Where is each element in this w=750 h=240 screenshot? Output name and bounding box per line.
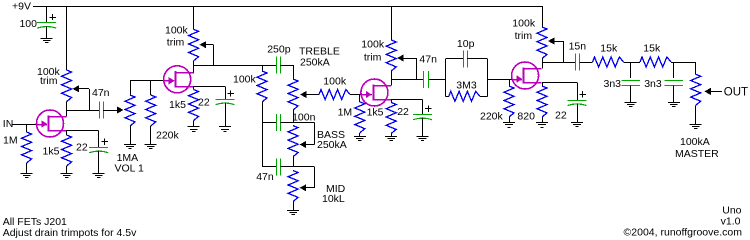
svg-text:100k: 100k (323, 76, 347, 88)
ground below R8 (385, 136, 397, 138)
wiper arrow VR3 (397, 54, 404, 61)
ground below R7 (354, 136, 366, 138)
wire RC top left (446, 58, 464, 60)
wire RC bottom right (480, 96, 488, 98)
wire Q3 source to R8 (391, 100, 393, 103)
resistor R6 100k (319, 90, 350, 100)
ground below R3 (145, 144, 157, 146)
wire C12 to ground (577, 103, 579, 122)
svg-text:15n: 15n (569, 40, 587, 52)
svg-text:10kL: 10kL (322, 193, 345, 205)
resistor R10 220k (509, 79, 511, 86)
resistor trimpot VR4 100k (537, 27, 547, 59)
potentiometer TREBLE 250kA (288, 79, 298, 110)
svg-text:1k5: 1k5 (169, 99, 186, 111)
wire drain node to slope resistor (262, 65, 264, 71)
ground below C2 (93, 173, 105, 175)
wire R12 to node (624, 62, 641, 64)
wire +9V rail (33, 6, 542, 8)
svg-text:22: 22 (555, 110, 567, 122)
svg-text:15k: 15k (643, 43, 661, 55)
wire RC network to Q4 gate (488, 79, 512, 81)
ground below C9 (417, 136, 429, 138)
svg-text:47n: 47n (92, 87, 110, 99)
ground below R1 (21, 173, 33, 175)
svg-text:22: 22 (198, 97, 210, 109)
svg-text:1k5: 1k5 (43, 146, 60, 158)
ground below R4 (188, 126, 200, 128)
arrow into VOL1 wiper (117, 106, 124, 113)
wire R13 to node (671, 62, 696, 64)
wiper arrow VR2 (200, 41, 207, 48)
svg-text:15k: 15k (600, 43, 618, 55)
svg-text:trim: trim (40, 75, 58, 87)
wire C6 to bass pot top (280, 122, 293, 124)
wire RC network left side (445, 59, 447, 97)
wire R6 to Q3 gate (350, 94, 372, 96)
potentiometer BASS 250kA (288, 126, 298, 157)
transistor Q2 J201 (164, 66, 191, 93)
wire Q4 source node (542, 82, 577, 84)
svg-text:3n3: 3n3 (604, 78, 622, 90)
wire Q2 source node (194, 86, 225, 88)
wire rail to trimpot VR1 (66, 6, 68, 70)
ground below C13 (625, 102, 637, 104)
svg-text:©2004, runoffgroove.com: ©2004, runoffgroove.com (624, 227, 743, 239)
wire treble pot bottom (293, 110, 295, 122)
node Q4 drain wire (542, 62, 575, 64)
wire VR1 wiper to drain node (89, 89, 91, 110)
svg-text:100k: 100k (165, 25, 189, 37)
resistor R13 15k (640, 57, 671, 67)
wire bass pot bottom (293, 157, 295, 167)
svg-text:3n3: 3n3 (644, 78, 662, 90)
wire Q2 source to R4 (193, 86, 195, 89)
node Q1 drain wire (67, 110, 100, 112)
wire rail corner to trimpot VR4 (542, 6, 544, 27)
resistor R3 220k (146, 95, 156, 126)
ground below R2 (61, 173, 73, 175)
wire to C12 (577, 83, 579, 101)
wire rail to trimpot VR3 (391, 6, 393, 40)
capacitor C9 22uF (413, 114, 432, 116)
svg-text:820: 820 (517, 111, 535, 123)
svg-text:trim: trim (364, 52, 382, 64)
wire mid pot bottom (293, 202, 295, 211)
capacitor C1 47n (99, 102, 101, 119)
svg-text:trim: trim (167, 37, 185, 49)
resistor R5 100k slope (257, 71, 267, 102)
wire bass top to wiper elbow (293, 122, 315, 124)
capacitor C2 22uF (89, 147, 108, 149)
wire C7 to mid pot top (280, 166, 293, 168)
capacitor C14 3n3 (665, 80, 684, 82)
wire C2 to ground (98, 151, 100, 174)
wire trimpot VR1 to Q1 drain (66, 102, 68, 117)
wire IN to Q1 gate (12, 124, 37, 126)
ground below VOL1 (124, 144, 136, 146)
wire C11 to R12 (580, 62, 593, 64)
ground below C12 (571, 122, 583, 124)
svg-text:1M: 1M (3, 135, 18, 147)
capacitor C12 22uF (568, 100, 587, 102)
wiper arrow TREBLE (300, 91, 307, 98)
ground below MID pot (287, 210, 299, 212)
svg-text:22: 22 (397, 106, 409, 118)
wire VOL1/220k top node to Q2 gate (130, 80, 164, 82)
capacitor C4 250p (276, 57, 278, 74)
wire VR4 wiper to drain node (563, 41, 565, 62)
capacitor C11 15n (575, 54, 577, 71)
wire RC network right side (487, 59, 489, 97)
wire to C2 (98, 131, 100, 148)
wire RC top right (467, 58, 487, 60)
resistor R4 1k5 (189, 90, 199, 121)
resistor trimpot VR3 100k (386, 40, 396, 71)
svg-text:47n: 47n (256, 171, 274, 183)
transistor Q1 J201 (37, 110, 64, 137)
wiper arrow VR1 (73, 85, 80, 92)
node Q2 drain wire (194, 65, 276, 67)
capacitor C7 47n (276, 158, 278, 175)
wire C13 to ground (630, 85, 632, 102)
ground below R11 (536, 122, 548, 124)
ground below C3 (219, 126, 231, 128)
wiper arrow MID (300, 184, 307, 191)
wire RC bottom left (446, 96, 449, 98)
wire node to C13 (630, 62, 632, 78)
wire VR3 wiper to drain node (416, 58, 418, 79)
ground below R10 (503, 122, 515, 124)
wire trimpot VR2 to Q2 drain (193, 61, 195, 73)
wire C9 to ground (422, 118, 424, 137)
svg-text:MASTER: MASTER (675, 148, 719, 160)
svg-text:250kA: 250kA (300, 57, 330, 69)
svg-text:250kA: 250kA (317, 139, 347, 151)
svg-text:250p: 250p (267, 44, 291, 56)
svg-text:+9V: +9V (12, 1, 31, 13)
wire VR2 wiper to drain node (213, 45, 215, 65)
wire C8 to RC network (429, 79, 446, 81)
wire C3 to ground (225, 102, 227, 127)
wire C5 to ground (46, 27, 48, 39)
svg-text:100k: 100k (361, 39, 385, 51)
wire C1 to VOL1 wiper arrow (103, 110, 117, 112)
wiper arrow VR4 (548, 37, 555, 44)
svg-text:220k: 220k (480, 111, 504, 123)
wiper arrow MASTER / OUT (704, 88, 711, 95)
svg-text:100k: 100k (233, 74, 257, 86)
wire backbone to C7 (262, 166, 276, 168)
ground below C14 (668, 102, 680, 104)
wire treble pot top (293, 65, 295, 79)
svg-text:100kA: 100kA (680, 136, 710, 148)
wire C4 to treble pot (280, 65, 293, 67)
svg-text:3M3: 3M3 (456, 79, 477, 91)
capacitor C5 100uF (37, 22, 56, 24)
wire Q3 source node (391, 99, 422, 101)
wire 220k top stub (150, 81, 152, 95)
svg-text:22: 22 (76, 142, 88, 154)
capacitor C8 47n (423, 71, 425, 88)
resistor R1 1M (26, 124, 28, 132)
svg-text:trim: trim (515, 30, 533, 42)
potentiometer MASTER 100kA (691, 74, 701, 105)
ground below C5 (41, 38, 53, 40)
wire trimpot VR4 to Q4 drain (542, 59, 544, 69)
svg-text:10p: 10p (457, 38, 475, 50)
capacitor C6 100n (276, 114, 278, 131)
wire Q4 source to R11 (542, 83, 544, 87)
wire to C9 (422, 100, 424, 115)
ground below MASTER (690, 124, 702, 126)
wire backbone to C6 (262, 122, 276, 124)
svg-text:47n: 47n (419, 54, 437, 66)
svg-text:VOL 1: VOL 1 (115, 163, 145, 175)
svg-text:1k5: 1k5 (367, 107, 384, 119)
wire node to C14 (673, 62, 675, 78)
resistor R9 3M3 (449, 91, 480, 101)
wire Q1 source node (67, 130, 99, 132)
wire mid top to wiper elbow (293, 166, 315, 168)
resistor R2 1k5 (62, 135, 72, 166)
transistor Q4 J201 (512, 62, 539, 89)
wire trimpot VR3 to Q3 drain (391, 71, 393, 86)
wire VOL1 top stub (130, 81, 132, 95)
wire +9V to C5 (46, 6, 48, 22)
resistor R12 15k (593, 57, 624, 67)
wire Q1 source to R2 (66, 131, 68, 136)
wiper arrow BASS (300, 141, 307, 148)
svg-text:OUT: OUT (724, 87, 748, 99)
capacitor C3 22uF (216, 99, 235, 101)
capacitor C10 10p (463, 50, 465, 67)
resistor trimpot VR1 100k (62, 70, 72, 102)
resistor R8 1k5 (386, 103, 396, 134)
resistor trimpot VR2 100k (189, 29, 199, 61)
capacitor C13 3n3 (621, 80, 640, 82)
potentiometer VOL1 1MA (125, 95, 135, 126)
wire to C3 (225, 86, 227, 99)
svg-text:220k: 220k (156, 130, 180, 142)
wire rail to trimpot VR2 (193, 6, 195, 29)
svg-text:100k: 100k (512, 18, 536, 30)
svg-text:100n: 100n (292, 112, 316, 124)
svg-text:Adjust drain trimpots for 4.5v: Adjust drain trimpots for 4.5v (3, 227, 137, 239)
node Q3 drain wire (391, 79, 423, 81)
svg-text:100: 100 (19, 18, 37, 30)
wire slope bottom backbone (262, 102, 264, 167)
resistor R11 820 (537, 86, 547, 117)
svg-text:1M: 1M (338, 107, 353, 119)
transistor Q3 J201 (361, 79, 388, 106)
wire C14 to ground (673, 85, 675, 102)
wire to MASTER pot (695, 62, 697, 74)
potentiometer MID 10kL (288, 171, 298, 202)
resistor R7 1M (359, 95, 361, 102)
